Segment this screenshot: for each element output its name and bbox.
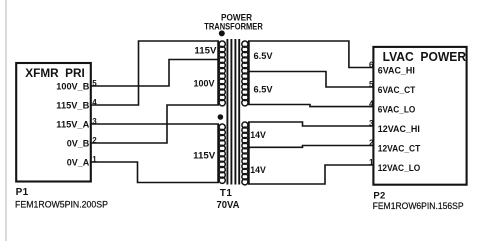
svg-text:3: 3 (369, 119, 374, 128)
svg-text:0V_B: 0V_B (67, 138, 90, 148)
svg-text:1: 1 (369, 158, 374, 167)
phase dot upper primary (219, 30, 225, 36)
P2 pin numbers 6..1 (369, 60, 374, 167)
svg-text:115V_A: 115V_A (56, 119, 89, 129)
svg-text:2: 2 (92, 136, 97, 145)
wire secondary 6V low tap to P2 pin 4 (6VAC_LO) (249, 105, 374, 107)
svg-text:TRANSFORMER: TRANSFORMER (204, 22, 263, 33)
wire primary top tap to P1 pin 4 (115V_B) (91, 41, 219, 105)
svg-text:115V: 115V (193, 151, 216, 162)
svg-text:LVAC POWER: LVAC POWER (383, 50, 467, 64)
svg-text:100V_B: 100V_B (56, 81, 89, 91)
wire lower primary top to P1 pin 3 (115V_A) (91, 123, 219, 125)
svg-text:2: 2 (369, 138, 374, 147)
wire lower primary bottom to P1 pin 1 (0V_A) (91, 162, 219, 183)
svg-text:5: 5 (92, 79, 97, 88)
primary winding upper section loops (219, 41, 225, 106)
svg-text:6.5V: 6.5V (254, 51, 274, 62)
wire secondary 12V center tap to P2 pin 2 (12VAC_CT) (249, 146, 374, 148)
svg-text:3: 3 (92, 117, 97, 126)
wire secondary 12V high tap to P2 pin 3 (12VAC_HI) (249, 122, 374, 126)
P1 pin name labels (56, 81, 89, 167)
svg-text:FEM1ROW6PIN.156SP: FEM1ROW6PIN.156SP (373, 201, 464, 212)
wire upper primary bottom to P1 pin 2 (0V_B) (91, 105, 219, 143)
wire primary 115V tap to P1 pin 5 (100V_B) (91, 60, 219, 87)
svg-text:0V_A: 0V_A (67, 157, 90, 167)
svg-text:FEM1ROW5PIN.200SP: FEM1ROW5PIN.200SP (15, 199, 108, 210)
svg-text:70VA: 70VA (217, 200, 240, 211)
svg-text:14V: 14V (250, 130, 266, 141)
svg-text:5: 5 (369, 80, 374, 89)
svg-text:14V: 14V (250, 165, 266, 176)
primary winding upper section stem (217, 41, 219, 105)
P1 pin numbers 5..1 (92, 79, 97, 164)
svg-text:12VAC_LO: 12VAC_LO (378, 163, 421, 173)
svg-text:100V: 100V (194, 79, 216, 90)
wire secondary 12V low tap to P2 pin 1 (12VAC_LO) (249, 165, 374, 184)
primary winding lower section loops (219, 124, 225, 183)
svg-text:4: 4 (369, 99, 374, 108)
svg-text:XFMR PRI: XFMR PRI (25, 66, 85, 80)
svg-text:6VAC_CT: 6VAC_CT (378, 85, 416, 95)
svg-text:P1: P1 (16, 187, 29, 198)
P2 pin name labels (378, 65, 421, 173)
secondary winding 6.3V section stem (248, 41, 250, 105)
svg-text:12VAC_CT: 12VAC_CT (378, 143, 421, 153)
connector P1 box (XFMR PRI) (16, 63, 91, 182)
primary winding lower section stem (217, 124, 219, 183)
wire secondary top tap to P2 pin 6 (6VAC_HI) (249, 41, 374, 68)
secondary winding 12.6V section stem (248, 122, 250, 184)
secondary winding 6.3V section loops (242, 41, 248, 106)
wire secondary 6V center tap to P2 pin 5 (6VAC_CT) (249, 72, 374, 88)
svg-text:115V_B: 115V_B (56, 100, 89, 110)
phase dot lower primary (218, 114, 224, 120)
scan artifact line (page edge) (5, 0, 7, 241)
svg-text:115V: 115V (194, 46, 217, 57)
svg-text:6VAC_HI: 6VAC_HI (378, 65, 415, 75)
svg-text:4: 4 (92, 98, 97, 107)
svg-text:6.5V: 6.5V (254, 84, 274, 95)
connector P2 box (LVAC POWER) (373, 47, 466, 185)
svg-text:12VAC_HI: 12VAC_HI (378, 124, 420, 134)
secondary winding 12.6V section loops (242, 122, 248, 185)
svg-text:6: 6 (369, 60, 374, 69)
title POWER TRANSFORMER (204, 12, 263, 32)
svg-text:1: 1 (92, 155, 97, 164)
svg-text:6VAC_LO: 6VAC_LO (378, 104, 416, 114)
svg-text:T1: T1 (220, 188, 233, 199)
transformer T1 core laminations (227, 39, 239, 185)
